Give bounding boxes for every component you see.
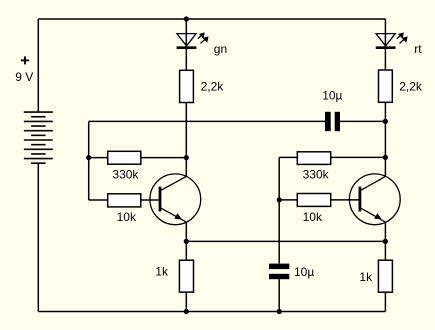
svg-text:1k: 1k [359,270,373,284]
wire right 330k right lead [331,156,386,158]
capacitor C2 10u (bottom, vertical) [269,264,289,280]
svg-text:2,2k: 2,2k [399,79,423,93]
LED D1 (gn) [177,32,209,47]
svg-text:10k: 10k [117,210,137,224]
wire bottom rail [38,311,385,313]
wire left collector branch [185,19,187,70]
wire right 10k right lead / base Q2 [331,199,359,201]
svg-text:gn: gn [214,42,227,56]
svg-text:9 V: 9 V [15,70,33,84]
node left collector / 330k [184,155,189,160]
svg-text:2,2k: 2,2k [201,79,225,93]
svg-text:10k: 10k [303,210,323,224]
resistor 2,2k right [379,70,393,102]
wire right 10k left lead [279,199,297,201]
wire right 330k left lead [279,156,297,158]
wire top rail [38,18,385,20]
node top rail / D1 [184,16,189,21]
wire right bias vertical [278,157,280,263]
svg-text:330k: 330k [303,168,330,182]
svg-text:10µ: 10µ [294,265,314,279]
wire right collector branch [384,19,386,70]
wire left bias vertical [88,121,90,200]
resistor 10k left [108,194,141,207]
svg-text:rt: rt [414,42,422,56]
LED D2 (rt) [376,32,408,47]
svg-text:330k: 330k [112,167,139,181]
wire left supply upper [37,19,39,112]
resistor 1k right [378,260,392,292]
wire left 330k left lead [89,157,108,159]
wire coupling cap C1 right lead [340,120,385,122]
svg-text:1k: 1k [155,265,169,279]
resistor 2,2k left [180,70,194,102]
wire left 10k right lead / base Q1 [141,199,159,201]
node right emitter rail [383,239,388,244]
node right bias / 10k [277,197,282,202]
battery plus sign [21,56,29,64]
transistor Q2 [349,174,400,225]
node right collector / C1 [383,119,388,124]
wire emitter rail [186,240,385,242]
svg-text:10µ: 10µ [322,89,342,103]
node left bias / 330k [86,155,91,160]
node right collector / 330k [383,155,388,160]
resistor 330k right [297,152,330,165]
node bottom rail / C2 [277,309,282,314]
node left emitter rail [184,239,189,244]
resistor 330k left [108,151,141,164]
wire coupling cap C1 left lead [89,120,325,122]
resistor 10k right [297,194,330,207]
wire bottom cap C2 lower lead [278,279,280,311]
wire left 10k left lead [89,199,108,201]
wire left supply lower [37,163,39,311]
node bottom rail / 1k left [184,309,189,314]
wire left 330k right lead [141,157,187,159]
battery 9V [24,112,53,163]
capacitor C1 10u (top, horizontal) [325,112,340,131]
transistor Q1 [150,174,201,225]
resistor 1k left [179,260,193,292]
